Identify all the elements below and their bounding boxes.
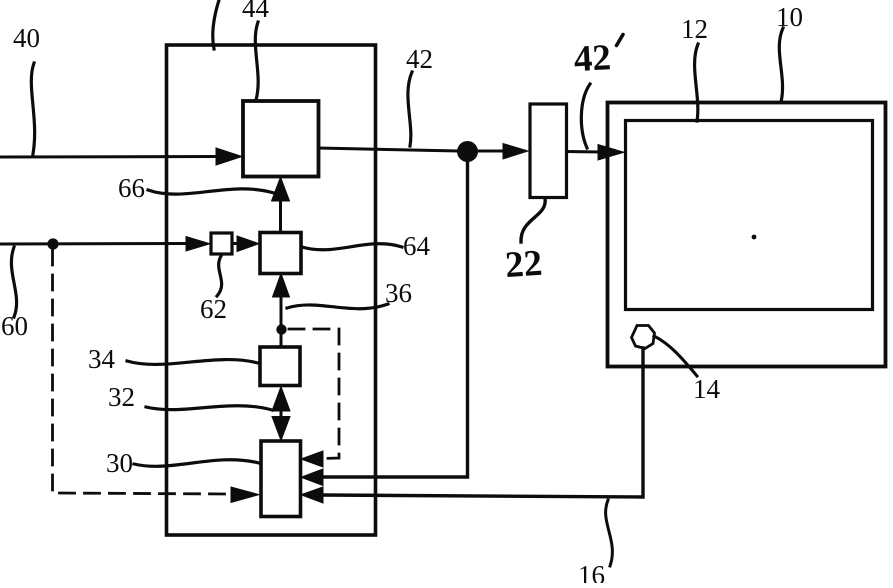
node junction dot	[457, 141, 478, 162]
lead line 60	[11, 247, 16, 317]
lead line 44	[255, 22, 258, 100]
enclosure box (main unit)	[167, 45, 376, 535]
arrowhead into block 64	[237, 236, 259, 252]
lead line 42'	[581, 84, 590, 148]
monitor 10 outer frame	[608, 103, 886, 367]
lead line 36	[287, 304, 388, 309]
dashed feedback 60 line	[53, 250, 233, 494]
svg-text:30: 30	[106, 448, 133, 478]
wire 34 up to 64	[280, 295, 283, 347]
svg-text:34: 34	[88, 344, 116, 374]
arrowhead into block 30 left	[231, 487, 259, 503]
block 62	[211, 233, 232, 254]
wire from monitor button to block 30 (bottom)	[322, 348, 643, 497]
lead line 66	[148, 189, 274, 194]
wire 64 up to 44	[279, 199, 282, 233]
wire input 40	[0, 155, 218, 159]
lead line 64	[302, 244, 402, 250]
svg-text:10: 10	[776, 2, 803, 32]
arrowhead into monitor	[598, 145, 624, 161]
lead line 40	[31, 63, 34, 154]
lead line 10	[779, 28, 783, 102]
svg-text:42: 42	[573, 37, 612, 80]
arrowhead into block 30 bottom right	[301, 487, 323, 503]
block 22	[530, 104, 567, 198]
lead line 42	[408, 72, 412, 146]
arrowhead into block 30 middle right	[301, 469, 323, 486]
block 30	[261, 441, 301, 517]
double arrow between 34 and 30	[280, 404, 283, 423]
svg-text:14: 14	[693, 374, 721, 404]
wire input 60	[0, 242, 190, 246]
arrowhead into block 22	[503, 144, 528, 160]
junction dot on wire 36	[276, 324, 286, 334]
lead line 62	[217, 256, 222, 296]
screen center dot	[752, 235, 757, 240]
arrowhead into block 44 bottom	[272, 177, 290, 201]
svg-text:62: 62	[200, 294, 227, 324]
arrowhead into block 30 top right	[301, 451, 323, 467]
svg-text:32: 32	[108, 382, 135, 412]
arrowhead into block 62	[186, 237, 210, 252]
lead line 34	[127, 360, 258, 365]
svg-text:12: 12	[681, 14, 708, 44]
svg-text:40: 40	[13, 23, 40, 53]
lead line 14	[654, 336, 697, 376]
svg-text:42: 42	[406, 44, 433, 74]
wire 42 from block 44 to node	[319, 148, 458, 151]
svg-text:36: 36	[385, 278, 412, 308]
power button 14	[632, 326, 655, 349]
lead line top cut	[213, 0, 219, 49]
block 34	[260, 347, 300, 386]
block 64	[260, 233, 301, 274]
arrowhead into block 64 bottom	[273, 274, 290, 298]
monitor 12 screen	[626, 121, 873, 310]
lead line 16	[606, 500, 613, 566]
lead line 30	[134, 460, 259, 467]
wire 42' block 22 to monitor	[567, 150, 601, 154]
svg-text:60: 60	[1, 311, 28, 341]
arrowhead into block 44	[216, 148, 242, 165]
svg-text:64: 64	[403, 231, 431, 261]
wire 62 to 64	[232, 242, 240, 245]
dashed loop 36	[289, 329, 339, 459]
lead line 32	[146, 406, 272, 410]
junction dot on input 60	[47, 238, 58, 249]
svg-text:22: 22	[504, 243, 544, 286]
lead line 12	[695, 44, 698, 121]
svg-text:44: 44	[242, 0, 270, 23]
wire node down to block 30 (right middle)	[322, 160, 468, 477]
block 44	[243, 101, 319, 177]
svg-text:16: 16	[578, 560, 605, 583]
lead line 22	[521, 198, 545, 242]
svg-text:66: 66	[118, 173, 145, 203]
wire node to block 22	[478, 150, 504, 153]
